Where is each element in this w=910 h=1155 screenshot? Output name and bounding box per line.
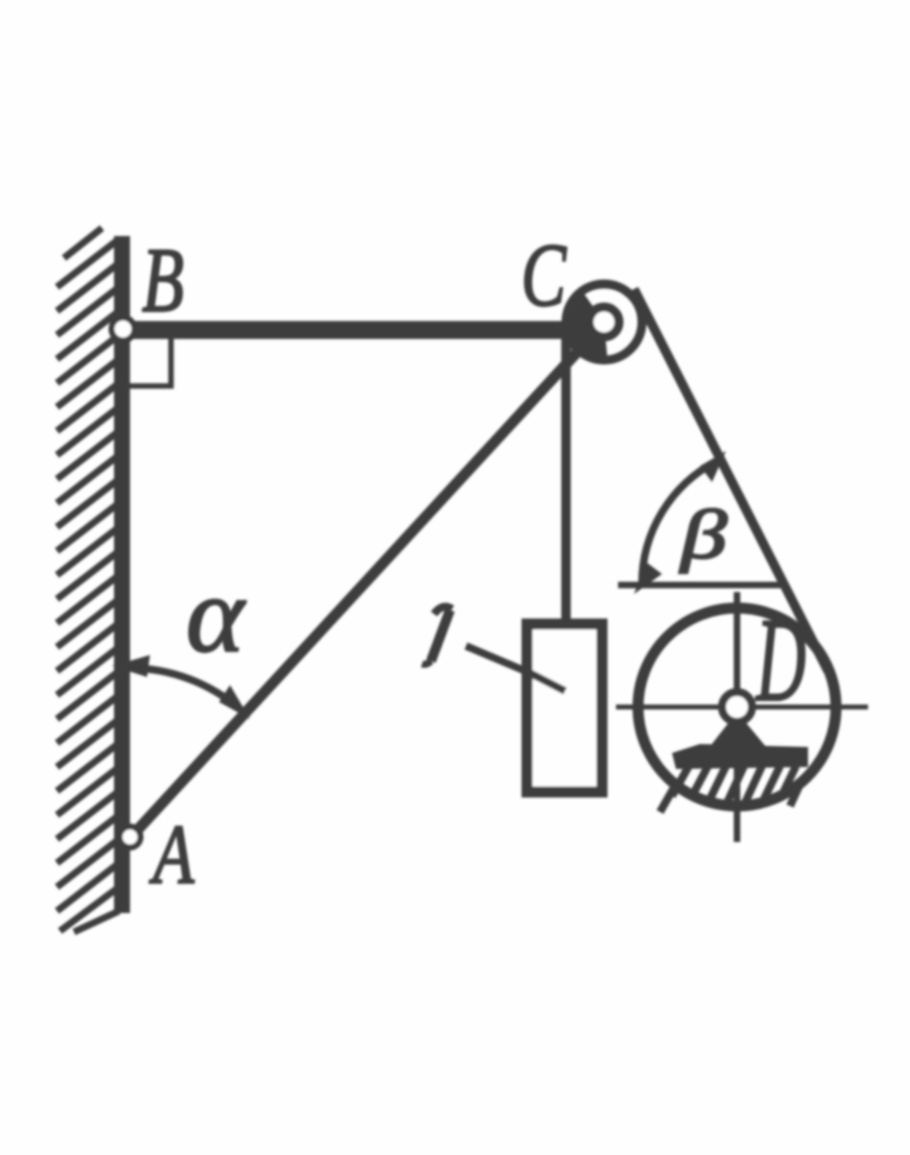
wall hatching — [57, 228, 119, 932]
rod AC — [131, 336, 592, 837]
wheel D support triangle — [704, 712, 772, 754]
alpha arrow on rod — [219, 685, 250, 719]
svg-text:B: B — [142, 229, 184, 331]
svg-text:C: C — [521, 226, 567, 325]
wheel D centerline horizontal — [616, 705, 868, 710]
angle beta arc — [642, 461, 717, 585]
beam BC — [118, 321, 598, 339]
rope from pulley to wheel D — [634, 289, 828, 671]
pulley C bracket blob — [562, 288, 608, 364]
svg-text:β: β — [678, 497, 727, 574]
pin B — [112, 318, 135, 341]
angle beta horizontal line — [618, 582, 784, 589]
ground hatching under wheel D — [660, 764, 802, 812]
svg-text:A: A — [149, 808, 195, 902]
angle alpha arc — [130, 668, 241, 710]
svg-text:α: α — [186, 556, 246, 675]
wheel D outer circle — [638, 608, 836, 806]
label 1 — [434, 607, 452, 614]
wheel D centerline vertical — [734, 592, 741, 842]
wheel D hub — [722, 692, 752, 722]
right-angle marker at B — [130, 339, 171, 386]
beta arrow at rope — [700, 451, 726, 482]
rope from pulley to load — [561, 335, 571, 624]
svg-text:D: D — [755, 593, 806, 726]
pulley C hub — [589, 307, 619, 337]
wheel D support ground band — [672, 744, 808, 769]
leader line for label 1 — [466, 646, 565, 691]
wall line — [114, 236, 130, 913]
pulley C outer ring — [566, 284, 642, 360]
load 1 rectangle — [527, 624, 602, 792]
beta arrow at horizontal line — [634, 562, 662, 594]
alpha arrow on wall — [112, 655, 150, 677]
pin A — [120, 827, 141, 848]
